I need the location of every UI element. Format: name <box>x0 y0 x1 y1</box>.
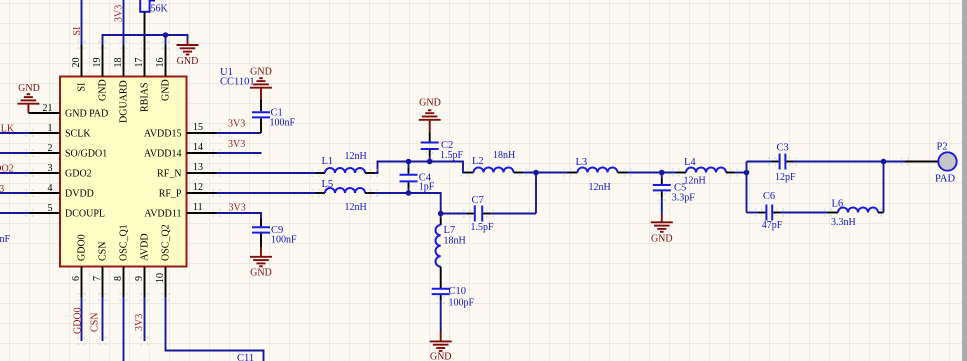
wire ring bottom rail <box>747 212 829 214</box>
pin 6 GDO0 bottom <box>71 234 88 297</box>
svg-text:L3: L3 <box>576 157 588 168</box>
svg-text:DVDD: DVDD <box>65 189 94 200</box>
svg-text:AVDD11: AVDD11 <box>144 209 181 220</box>
wire top GND run pins 19,16 <box>103 35 188 45</box>
svg-text:12: 12 <box>193 182 203 193</box>
pin 16 GND top <box>155 45 172 101</box>
wire resistor to RBIAS pin <box>144 12 146 45</box>
ground below C10 <box>430 332 452 361</box>
svg-text:GDO0: GDO0 <box>73 307 84 334</box>
capacitor C2 <box>421 133 464 162</box>
wire L5 to corner down <box>374 193 441 214</box>
inductor L1 <box>316 151 375 173</box>
svg-text:1: 1 <box>48 123 53 134</box>
wire C7 row <box>441 213 467 215</box>
svg-text:5: 5 <box>48 203 53 214</box>
svg-text:12pF: 12pF <box>775 172 796 183</box>
svg-text:12nH: 12nH <box>589 182 611 193</box>
svg-text:SO/GDO1: SO/GDO1 <box>65 149 107 160</box>
wire AVDD 3V3 bottom <box>144 297 146 341</box>
pin of P2 <box>905 161 938 163</box>
wire CSN bottom <box>102 297 104 341</box>
svg-text:3V3: 3V3 <box>229 203 246 214</box>
svg-text:C6: C6 <box>763 191 775 202</box>
junction C4 row12 <box>406 190 412 196</box>
svg-text:9: 9 <box>134 276 145 281</box>
pin 7 CSN bottom <box>92 242 109 297</box>
inductor L4 <box>676 157 734 186</box>
svg-text:21: 21 <box>43 103 53 114</box>
svg-text:SI: SI <box>77 83 88 92</box>
ground below C9 <box>250 248 272 279</box>
svg-text:6: 6 <box>71 276 82 281</box>
svg-text:18: 18 <box>113 58 124 68</box>
wire AVDD11 row to C9 <box>217 213 262 220</box>
wire L4 to ring <box>734 172 747 174</box>
svg-text:OSC_Q1: OSC_Q1 <box>119 224 130 261</box>
pin 18 DGUARD top <box>113 45 130 123</box>
op-amp U1 CC1101 body <box>60 67 255 267</box>
svg-text:RBIAS: RBIAS <box>140 83 151 112</box>
svg-text:GND: GND <box>161 79 172 101</box>
svg-text:3V3: 3V3 <box>0 184 4 195</box>
svg-text:DGUARD: DGUARD <box>119 80 130 123</box>
svg-text:GDO0: GDO0 <box>77 234 88 261</box>
svg-text:8: 8 <box>113 276 124 281</box>
svg-text:C7: C7 <box>472 195 484 206</box>
pin 4 DVDD left <box>30 183 94 200</box>
svg-text:19: 19 <box>92 58 103 68</box>
ground top right <box>177 40 199 67</box>
svg-text:SCLK: SCLK <box>65 129 91 140</box>
inductor L3 <box>568 157 628 193</box>
svg-text:20: 20 <box>71 58 82 68</box>
scrollbar strip right edge <box>962 0 967 361</box>
svg-text:3V3: 3V3 <box>134 314 145 331</box>
svg-text:GND: GND <box>250 268 272 279</box>
svg-text:GND: GND <box>250 67 272 78</box>
wire RF_N row to L1 <box>217 172 316 174</box>
svg-text:AVDD15: AVDD15 <box>144 129 182 140</box>
svg-text:3V3: 3V3 <box>228 139 245 150</box>
svg-text:3.3nH: 3.3nH <box>831 217 856 228</box>
net label 3V3 vertical <box>114 5 125 22</box>
svg-text:CSN: CSN <box>98 242 109 261</box>
wire GDO0 bottom <box>81 297 83 341</box>
svg-text:L6: L6 <box>832 199 844 210</box>
wire RF_P row to L5 <box>217 192 316 194</box>
pin 19 GND top <box>92 45 109 101</box>
inductor L5 <box>316 179 375 213</box>
svg-text:100pF: 100pF <box>449 298 475 309</box>
svg-text:100nF: 100nF <box>270 118 296 129</box>
inductor L6 <box>828 199 884 229</box>
wire ring top rail <box>747 161 884 163</box>
pin 12 RF_P right <box>159 182 217 200</box>
wire 3V3 to DGUARD <box>123 0 125 45</box>
junction L7/C7 node <box>438 211 444 217</box>
net label SI <box>72 27 83 36</box>
svg-text:12nH: 12nH <box>684 175 706 186</box>
svg-text:L2: L2 <box>472 156 484 167</box>
svg-text:3V3: 3V3 <box>228 119 245 130</box>
pin 21 GND PAD left <box>28 103 108 120</box>
svg-text:18nH: 18nH <box>444 236 466 247</box>
svg-text:2: 2 <box>48 143 53 154</box>
pin 5 DCOUPL left <box>30 203 106 220</box>
svg-text:GDO2: GDO2 <box>65 169 92 180</box>
pin 8 OSC_Q1 bottom <box>113 224 130 297</box>
svg-text:CSN: CSN <box>90 313 101 332</box>
ground above C2 <box>419 98 441 133</box>
wire ring right vertical <box>883 162 885 213</box>
svg-text:18nH: 18nH <box>493 150 515 161</box>
svg-text:GND: GND <box>177 56 199 67</box>
capacitor C10 <box>432 286 475 309</box>
capacitor C9 <box>252 219 297 248</box>
pin 10 OSC_Q2 bottom <box>155 224 172 297</box>
svg-text:C10: C10 <box>449 286 467 297</box>
svg-text:100nF: 100nF <box>0 234 11 245</box>
pin 1 SCLK left <box>30 123 92 140</box>
wire OSC_Q2 to C11 <box>166 297 264 361</box>
net label 3V3 row14 <box>228 139 245 150</box>
wire DCOUPL <box>0 212 30 214</box>
svg-text:GND: GND <box>651 234 673 245</box>
svg-text:AVDD: AVDD <box>140 233 151 261</box>
svg-text:L7: L7 <box>444 225 456 236</box>
capacitor C3 <box>772 142 796 183</box>
wire C10 to ground <box>440 300 442 332</box>
wire OSC_Q1 bottom <box>123 297 125 361</box>
net label 3V3 (clipped) <box>0 184 4 195</box>
svg-text:3: 3 <box>48 163 53 174</box>
svg-text:1pF: 1pF <box>419 182 435 193</box>
capacitor C6 <box>759 191 783 231</box>
junction L2 out node <box>533 170 539 176</box>
svg-text:P2: P2 <box>937 141 948 152</box>
wire SI vertical <box>81 0 83 45</box>
pin 9 AVDD bottom <box>134 233 151 297</box>
wire L3 to L4 <box>628 172 677 174</box>
svg-text:11: 11 <box>193 202 203 213</box>
resistor 56K <box>140 0 168 15</box>
svg-text:RF_P: RF_P <box>159 189 182 200</box>
capacitor C5 <box>653 173 696 214</box>
net label GDO0 <box>73 307 84 334</box>
svg-text:L4: L4 <box>684 157 696 168</box>
svg-text:12nH: 12nH <box>345 151 367 162</box>
net label SCLK (clipped) <box>0 124 15 135</box>
junction ring left <box>744 170 750 176</box>
svg-text:56K: 56K <box>151 4 169 15</box>
wire L2 to L3 <box>523 172 568 174</box>
wire L1 to mid rail <box>374 162 465 174</box>
wire SCLK <box>0 132 30 134</box>
svg-text:17: 17 <box>134 58 145 68</box>
wire GDO2 <box>0 172 30 174</box>
svg-text:1.5pF: 1.5pF <box>471 222 495 233</box>
wire AVDD14 row <box>217 152 262 154</box>
svg-text:OSC_Q2: OSC_Q2 <box>161 224 172 261</box>
wire C7 to vertical <box>490 213 536 215</box>
svg-text:100nF: 100nF <box>271 235 297 246</box>
svg-text:GND: GND <box>98 79 109 101</box>
capacitor C11 label <box>237 353 254 361</box>
svg-text:15: 15 <box>193 122 203 133</box>
svg-text:DCOUPL: DCOUPL <box>65 209 105 220</box>
svg-text:L1: L1 <box>322 156 334 167</box>
svg-text:CC1101: CC1101 <box>220 77 255 88</box>
svg-text:3.3pF: 3.3pF <box>672 193 696 204</box>
svg-text:12nH: 12nH <box>345 202 367 213</box>
svg-text:C11: C11 <box>237 353 254 361</box>
net label 3V3 row15 <box>228 119 245 130</box>
svg-text:13: 13 <box>193 162 203 173</box>
wire DVDD <box>0 192 30 194</box>
svg-text:GND: GND <box>430 352 452 361</box>
svg-text:RF_N: RF_N <box>157 169 181 180</box>
wire SO/GDO1 <box>0 152 30 154</box>
svg-text:SCLK: SCLK <box>0 124 15 135</box>
wire to P2 <box>884 161 906 163</box>
junction C5 node <box>659 170 665 176</box>
svg-text:C3: C3 <box>777 142 789 153</box>
junction C4 on rail <box>406 159 412 165</box>
capacitor C7 <box>467 195 494 233</box>
pin 14 AVDD14 right <box>144 142 217 160</box>
svg-text:L5: L5 <box>322 179 334 190</box>
svg-text:3V3: 3V3 <box>114 5 125 22</box>
svg-text:1.5pF: 1.5pF <box>440 150 464 161</box>
svg-text:SI: SI <box>72 27 83 36</box>
wire AVDD15 row <box>217 132 262 134</box>
svg-text:10: 10 <box>155 273 166 283</box>
svg-text:GND PAD: GND PAD <box>65 109 108 120</box>
wire node down to C7 row <box>535 173 537 214</box>
net label 3V3 pin9 <box>134 314 145 331</box>
svg-text:7: 7 <box>92 276 103 281</box>
capacitor C4 <box>400 162 435 194</box>
wire endpoint markers <box>25 41 909 345</box>
pin 13 RF_N right <box>157 162 216 180</box>
pin 17 RBIAS top <box>134 45 151 112</box>
svg-text:GND: GND <box>419 98 441 109</box>
junction pin16 gnd wire <box>163 32 169 38</box>
svg-text:GND: GND <box>18 83 40 94</box>
ground left (pin 21) <box>17 83 39 113</box>
svg-text:16: 16 <box>155 58 166 68</box>
pin 11 AVDD11 right <box>144 202 216 220</box>
svg-text:4: 4 <box>48 183 53 194</box>
ground below C5 <box>651 214 673 245</box>
svg-text:AVDD14: AVDD14 <box>144 149 182 160</box>
ground above C1 <box>250 67 272 100</box>
inductor L2 <box>465 150 524 173</box>
net label CSN <box>90 313 101 332</box>
pin 15 AVDD15 right <box>144 122 217 140</box>
pin 2 SO/GDO1 left <box>30 143 108 160</box>
net label GDO2 (clipped) <box>0 164 14 175</box>
net label 100nF fragment <box>0 234 11 245</box>
wire ring left vertical <box>746 162 748 213</box>
svg-text:47pF: 47pF <box>762 220 783 231</box>
junction C2 on rail <box>427 159 433 165</box>
svg-text:PAD: PAD <box>935 174 955 185</box>
pin 3 GDO2 left <box>30 163 92 180</box>
inductor L7 vertical <box>436 214 466 289</box>
capacitor C1 <box>252 100 296 134</box>
net label 3V3 row11 <box>229 203 246 214</box>
junction ring top right <box>881 159 887 165</box>
svg-text:GDO2: GDO2 <box>0 164 14 175</box>
pad P2 <box>935 141 957 184</box>
pin 20 SI top <box>71 45 88 92</box>
svg-text:14: 14 <box>193 142 203 153</box>
